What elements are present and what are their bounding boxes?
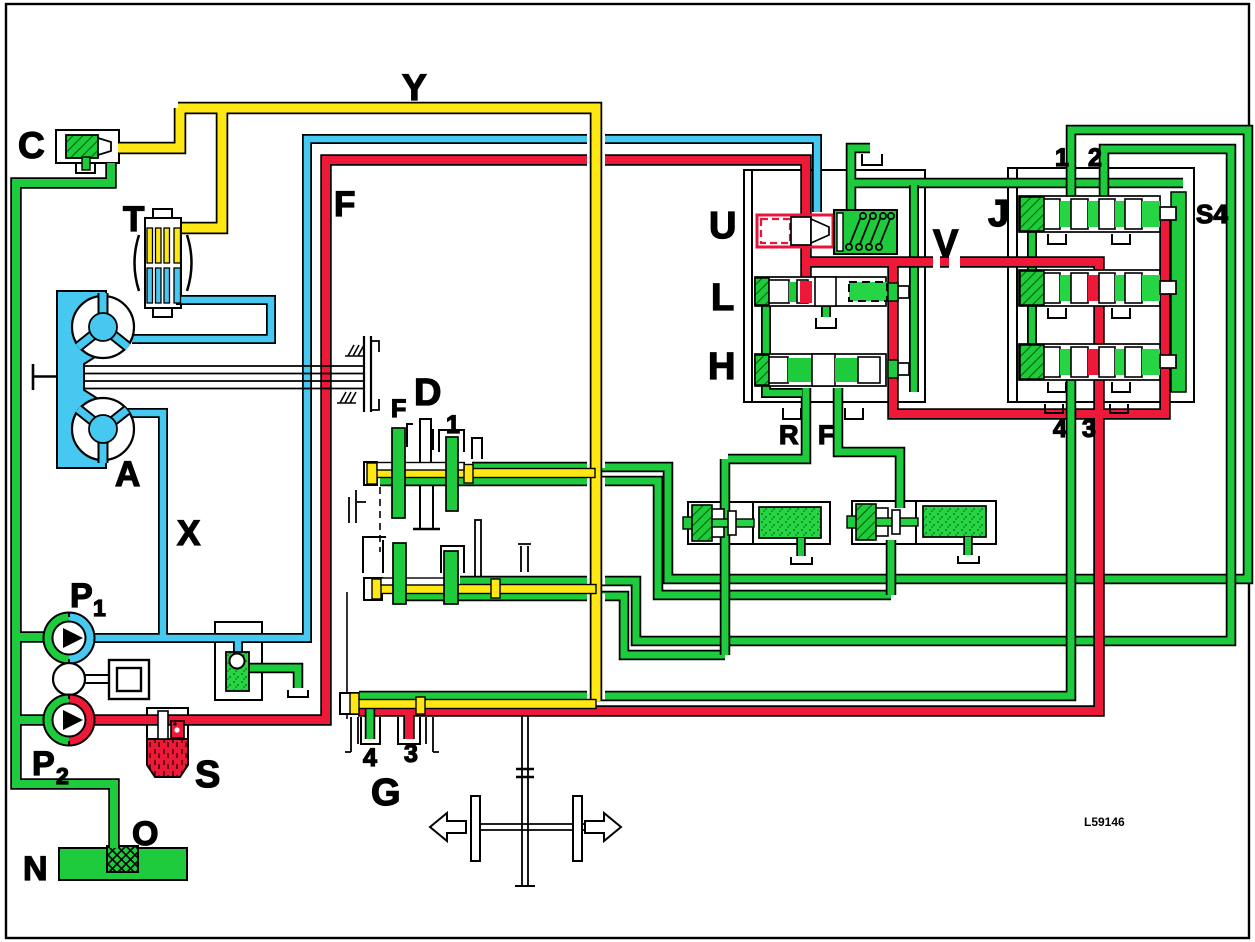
cooler T left arc [135, 235, 140, 291]
intake screen O [107, 846, 138, 872]
lube valve body [226, 652, 249, 691]
wire port 3 clutch stub [403, 711, 415, 739]
wire X converter outlet [124, 413, 163, 638]
converter A pump wheel [72, 293, 134, 358]
svg-text:S4: S4 [1196, 199, 1228, 229]
svg-text:R: R [779, 420, 799, 450]
J drain brackets row1 [1048, 234, 1130, 244]
hop gaps on V line [933, 254, 940, 270]
final drive cross bar [470, 824, 584, 830]
svg-text:D: D [414, 372, 441, 414]
J drain brackets row3 [1048, 382, 1130, 392]
output shaft end box [340, 693, 358, 714]
upper shaft white sleeve [377, 463, 464, 471]
wire P1 output to regulator U [95, 139, 817, 638]
svg-text:1: 1 [1055, 144, 1069, 172]
converter relief link [85, 675, 110, 683]
svg-text:1: 1 [446, 411, 460, 439]
arrow left [430, 813, 466, 841]
svg-text:A: A [115, 455, 140, 494]
final drive gear right [573, 796, 582, 861]
left modulator hatched spool [692, 505, 712, 541]
svg-text:1: 1 [93, 595, 106, 621]
lower shaft white sleeve [381, 578, 455, 585]
lube drain bracket [288, 690, 308, 697]
clutch 1 bar [446, 437, 458, 511]
right modulator drain [963, 537, 973, 555]
svg-text:3: 3 [1082, 415, 1096, 443]
reservoir N [59, 848, 187, 880]
vent bracket above U [862, 154, 882, 165]
svg-text:F: F [818, 420, 835, 450]
svg-text:H: H [708, 346, 735, 388]
strainer S bypass detail [171, 721, 184, 738]
final drive coupling [516, 769, 534, 777]
damper hatch top [345, 345, 364, 356]
wire lower shaft line to left modulator [395, 596, 725, 655]
wire suction trunk from C to screen O [16, 163, 114, 848]
regulator U spring chamber [834, 210, 897, 254]
valve L bore [755, 277, 886, 306]
pump P1 [44, 613, 95, 664]
J row 2 bore [1019, 270, 1160, 306]
cooler T right arc [187, 235, 192, 291]
svg-text:X: X [177, 514, 201, 553]
regulator U spring coil [846, 213, 894, 250]
modulating valve right housing [852, 501, 918, 544]
wire ULH bottom connector [766, 358, 802, 393]
wire red stub into L row [800, 262, 812, 298]
lower clutch bar A [393, 543, 406, 604]
svg-text:4: 4 [363, 744, 377, 772]
lower shaft end box [364, 578, 382, 600]
regulator U spool [791, 217, 811, 245]
converter relief ball [53, 663, 85, 695]
pump P2 [44, 695, 95, 746]
wire upper shaft line to right modulator [380, 481, 891, 595]
input shaft left end [33, 364, 58, 390]
svg-text:2: 2 [56, 763, 69, 789]
wire red under loop to J right [893, 220, 1165, 414]
strainer S inlet slot [158, 711, 168, 739]
lower clutch bar B [444, 551, 458, 604]
arrow right [585, 813, 621, 841]
wire clutch 1 line to port 1 [472, 130, 1248, 579]
clutch F housing [407, 424, 433, 450]
right modulator piston [923, 506, 986, 537]
flywheel damper bars [364, 336, 371, 412]
cooler T tube bars [147, 228, 181, 303]
wire yellow trunk Y [178, 108, 596, 701]
strainer S top body [147, 708, 188, 739]
svg-text:P: P [32, 745, 55, 783]
valve H lands [769, 357, 788, 383]
clutch 1 housing [439, 430, 464, 473]
wire port 4 clutch stub [365, 696, 376, 739]
mid housing brackets left [349, 490, 366, 523]
valve C drain stub [82, 157, 90, 170]
wire valve C to yellow trunk [118, 108, 180, 148]
gear web lower [420, 485, 433, 529]
svg-text:Y: Y [402, 67, 427, 108]
modulating valve left housing [688, 502, 755, 544]
housing drop line [346, 592, 348, 719]
valve H right piston [888, 360, 898, 378]
torque converter A housing [57, 291, 106, 468]
wire gallery ULH to J [851, 178, 1183, 189]
wire left modulator through line [720, 459, 731, 655]
svg-text:S: S [195, 754, 220, 796]
svg-text:2: 2 [1088, 144, 1102, 172]
wire P1 suction stub [16, 631, 50, 643]
wire lube valve feed [233, 640, 243, 657]
wire right modulator drop [886, 540, 897, 595]
bracket below R port [783, 408, 801, 419]
svg-text:N: N [23, 850, 48, 888]
lower T bracket [518, 544, 531, 572]
wire R port drop [728, 388, 806, 459]
wire port 4 run to output clutch [359, 380, 1071, 696]
left modulator drain [796, 538, 806, 556]
wire cooler T to converter [132, 300, 271, 339]
right modulator end knob [847, 516, 856, 528]
input shaft 4 lines [84, 366, 363, 389]
damper brackets [372, 341, 379, 410]
gear web upper [420, 419, 431, 464]
wire P2 suction stub [16, 714, 48, 726]
wire J internal left column [1027, 228, 1037, 348]
svg-text:L: L [711, 277, 734, 319]
hop gaps for yellow trunk [587, 130, 605, 148]
svg-text:4: 4 [1053, 415, 1067, 443]
clutch F bar [392, 428, 405, 518]
upper shaft yellow bar [368, 469, 595, 478]
J row 3 bore [1019, 344, 1160, 380]
lube valve box [215, 622, 262, 700]
J drain brackets below box [1045, 404, 1128, 413]
svg-text:F: F [334, 185, 355, 224]
lower clutch housing mid [441, 546, 464, 573]
svg-text:V: V [933, 223, 959, 265]
wire yellow feed to cooler T [182, 108, 222, 228]
valve L lands [769, 280, 789, 303]
upper shaft end box [364, 462, 377, 485]
lower shaft yellow bar [373, 585, 596, 594]
wire V line and port 3 run [358, 262, 1099, 711]
G housing brackets [345, 717, 358, 752]
lower clutch housing left [363, 537, 386, 573]
valve C cone [98, 138, 111, 155]
svg-text:J: J [988, 193, 1009, 235]
left modulator end knob [683, 517, 692, 529]
regulator U bore [757, 215, 833, 247]
svg-text:3: 3 [404, 740, 418, 768]
svg-text:C: C [18, 125, 45, 166]
wire vent above regulator U [851, 148, 870, 212]
J green right strip [1171, 192, 1186, 392]
bracket right of clutch 1 [472, 438, 482, 459]
svg-text:P: P [70, 577, 93, 615]
regulator U dashed sleeve [761, 219, 790, 243]
J row 1 bore [1019, 196, 1160, 232]
valve C spool hatched [66, 135, 98, 158]
svg-text:G: G [371, 772, 401, 814]
svg-text:O: O [132, 815, 158, 853]
strainer S cup [147, 739, 188, 777]
bracket below F port [845, 408, 863, 419]
wire clutch 2 line to port 2 [460, 149, 1231, 641]
converter A turbine wheel [72, 398, 134, 463]
countershaft center dashed line [379, 487, 381, 552]
valve H bore [755, 354, 886, 386]
J drain brackets row2 [1048, 308, 1130, 318]
valve H hatched land [755, 355, 769, 385]
converter relief valve box [109, 660, 149, 699]
final drive gear left [471, 796, 480, 861]
wire P2 output to regulator U [95, 160, 806, 720]
svg-text:T: T [123, 200, 144, 239]
damper hatch bottom [337, 392, 356, 403]
wire lube valve outlet [248, 668, 298, 688]
right modulator stem [876, 518, 918, 526]
final drive shaft [522, 712, 528, 886]
svg-text:U: U [709, 205, 736, 247]
bracket below L [816, 318, 836, 328]
lube valve ball [230, 654, 245, 669]
svg-text:L59146: L59146 [1084, 815, 1125, 829]
cooler T housing [145, 218, 181, 308]
valve L red land [800, 281, 812, 303]
valve block J body [1008, 168, 1194, 402]
svg-text:F: F [391, 395, 406, 423]
mid gear web [475, 520, 481, 578]
wire ULH internal right column [909, 185, 919, 392]
converter A notch [84, 350, 108, 404]
final drive shaft bottom end [515, 885, 535, 887]
wire F port drop [838, 388, 900, 508]
valve block ULH body [744, 170, 925, 402]
left modulator stem [712, 519, 754, 527]
valve C drain notch [76, 163, 95, 173]
regulator U poppet cone [811, 219, 829, 243]
wire ULH internal left column [761, 303, 771, 360]
valve L hatched land [755, 278, 769, 305]
valve C body [56, 130, 119, 163]
wire ULH drain below L [821, 303, 831, 317]
valve L dashed green plug [849, 282, 887, 301]
wire regulator U outlet stub [800, 245, 812, 262]
right modulator hatched spool [856, 504, 876, 540]
left modulator piston [759, 507, 821, 538]
valve L right piston [888, 283, 898, 301]
output shaft yellow bar [357, 700, 596, 709]
